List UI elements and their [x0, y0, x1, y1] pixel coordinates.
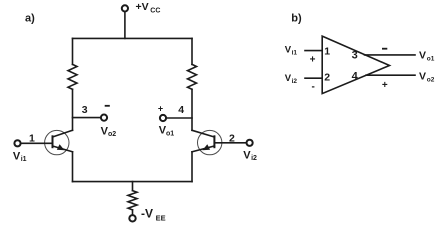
wire VCC stub — [124, 12, 126, 39]
svg-text:i2: i2 — [292, 78, 298, 85]
svg-text:a): a) — [25, 12, 35, 24]
terminal Vo2 — [101, 115, 107, 121]
svg-text:3: 3 — [352, 50, 358, 62]
svg-text:4: 4 — [178, 104, 184, 116]
terminal Vo1 — [160, 115, 166, 121]
wire left rail mid — [72, 89, 74, 130]
svg-text:+V: +V — [136, 1, 149, 13]
transistor Q2 — [192, 130, 222, 155]
resistor RC2 — [188, 64, 197, 89]
wire base 1 — [21, 142, 53, 144]
svg-text:1: 1 — [29, 132, 35, 144]
terminal Vi2 — [247, 140, 253, 146]
wire bottom rail — [73, 181, 193, 183]
svg-text:V: V — [243, 150, 251, 162]
resistor RC1 — [68, 64, 77, 89]
svg-text:-V: -V — [141, 207, 153, 221]
wire VEE stub — [132, 182, 134, 191]
terminal -VEE — [129, 215, 135, 221]
svg-text:i2: i2 — [251, 155, 257, 162]
svg-text:V: V — [13, 151, 21, 163]
wire left emitter rail — [72, 152, 74, 182]
svg-text:o1: o1 — [427, 55, 435, 62]
svg-text:2: 2 — [324, 72, 330, 84]
svg-text:i1: i1 — [21, 156, 27, 163]
wire output 4 — [366, 74, 415, 76]
svg-text:V: V — [419, 50, 426, 62]
label minus at Vo2 — [106, 105, 109, 107]
wire right rail mid — [191, 89, 193, 130]
wire left rail upper — [72, 38, 74, 64]
svg-text:CC: CC — [150, 7, 160, 14]
wire output 3 — [365, 54, 416, 56]
svg-text:4: 4 — [352, 70, 359, 82]
wire right rail upper — [191, 38, 193, 64]
label minus output 3 — [383, 48, 387, 50]
terminal +VCC — [122, 5, 128, 11]
svg-text:-: - — [312, 82, 315, 93]
svg-text:3: 3 — [82, 104, 88, 116]
transistor Q1 — [45, 130, 73, 155]
wire to VEE terminal — [132, 210, 134, 215]
wire node 3 — [73, 117, 101, 119]
svg-text:+: + — [158, 103, 163, 113]
wire right emitter rail — [191, 152, 193, 182]
svg-text:o2: o2 — [108, 131, 116, 138]
svg-text:EE: EE — [156, 213, 166, 222]
svg-text:2: 2 — [229, 132, 235, 144]
wire node 4 — [166, 117, 192, 119]
svg-text:1: 1 — [324, 45, 330, 57]
svg-text:o1: o1 — [166, 130, 174, 137]
svg-text:+: + — [382, 80, 388, 91]
svg-text:o2: o2 — [427, 76, 435, 83]
wire base 2 — [214, 142, 246, 144]
svg-text:V: V — [419, 70, 426, 82]
resistor RE — [128, 191, 137, 210]
svg-text:+: + — [310, 54, 316, 65]
terminal Vi1 — [14, 140, 20, 146]
svg-text:i1: i1 — [292, 50, 298, 57]
wire top rail — [73, 37, 193, 39]
op-amp U1 — [322, 36, 389, 94]
wire input 1 — [305, 50, 322, 52]
svg-text:b): b) — [291, 13, 302, 25]
wire input 2 — [305, 77, 322, 79]
